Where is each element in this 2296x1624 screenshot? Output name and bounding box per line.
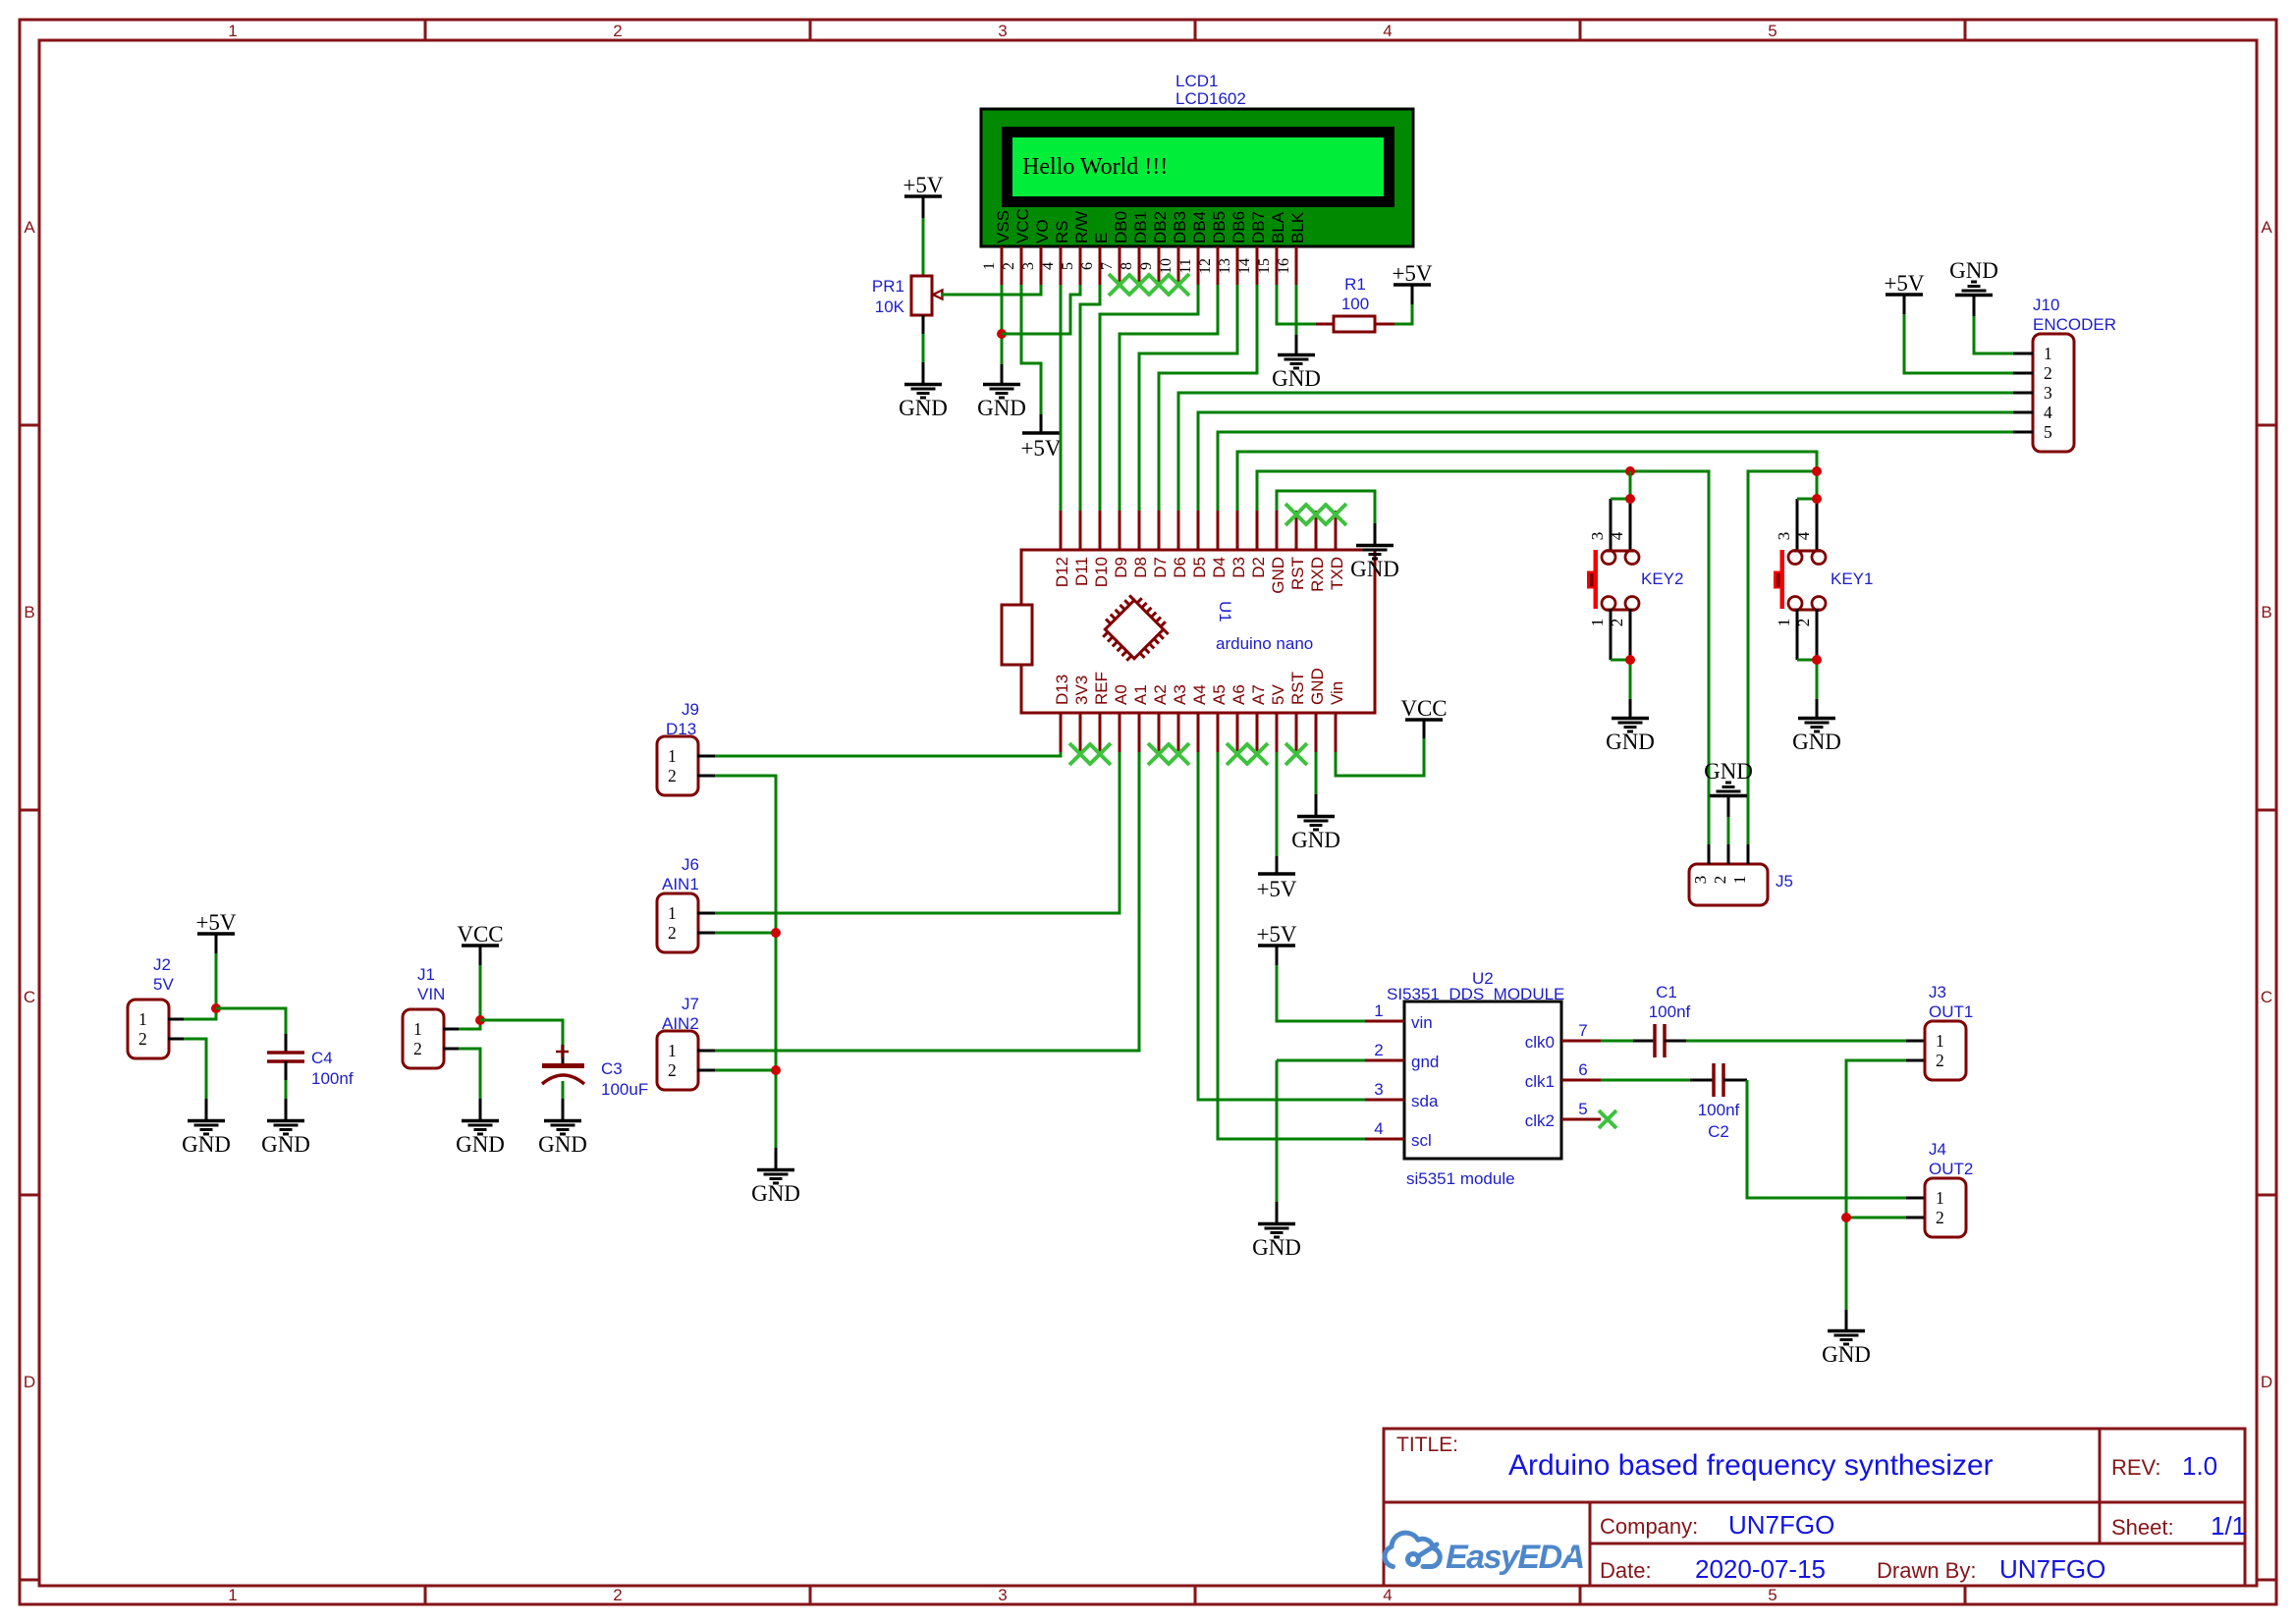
svg-text:clk2: clk2 xyxy=(1525,1111,1555,1130)
svg-text:KEY1: KEY1 xyxy=(1831,569,1873,588)
wire D6 to J10 pin3 xyxy=(1178,393,2013,511)
svg-text:arduino nano: arduino nano xyxy=(1216,634,1313,653)
svg-text:D10: D10 xyxy=(1092,557,1111,587)
svg-text:1: 1 xyxy=(228,1586,237,1604)
svg-text:3: 3 xyxy=(2044,383,2052,403)
J5 pin 2 stub xyxy=(1727,844,1730,864)
svg-text:+5V: +5V xyxy=(902,173,943,197)
svg-text:DB6: DB6 xyxy=(1230,211,1248,244)
svg-text:A: A xyxy=(24,218,35,237)
svg-text:sda: sda xyxy=(1411,1092,1439,1110)
svg-text:LCD1602: LCD1602 xyxy=(1175,89,1246,108)
power +5V (above PR1) xyxy=(904,194,942,198)
wire J7 pin2 to GND rail xyxy=(697,1069,715,1072)
wire 5V pin to +5V xyxy=(1276,752,1279,856)
svg-text:100nf: 100nf xyxy=(311,1069,354,1088)
wire VCC net to C3 xyxy=(480,1020,563,1045)
svg-text:VIN: VIN xyxy=(417,985,445,1003)
svg-text:REF: REF xyxy=(1092,672,1111,705)
wire A1 to J7 pin1 xyxy=(697,1050,715,1053)
svg-text:+5V: +5V xyxy=(195,910,236,935)
U1 top pin D6 stub xyxy=(1177,511,1180,550)
KEY2 top elbow xyxy=(1611,498,1630,501)
node KEY2 pins3-4 xyxy=(1625,494,1635,504)
node VSS-R/W junction xyxy=(997,329,1007,339)
svg-text:PR1: PR1 xyxy=(872,277,904,296)
wire U1 GND(top) to ground xyxy=(1277,491,1375,523)
J5 pin 3 stub xyxy=(1708,844,1711,864)
svg-text:Sheet:: Sheet: xyxy=(2111,1515,2174,1540)
wire A0 to J6 pin1 xyxy=(697,912,715,915)
svg-text:D4: D4 xyxy=(1210,557,1229,578)
svg-text:5: 5 xyxy=(1768,1586,1777,1604)
ground (J3/J4) xyxy=(1828,1329,1865,1333)
svg-text:1: 1 xyxy=(413,1019,422,1039)
svg-text:1: 1 xyxy=(668,746,677,766)
svg-text:U1: U1 xyxy=(1216,601,1234,623)
KEY1 bottom elbow to GND xyxy=(1797,660,1817,699)
node D3-J5 junction xyxy=(1812,466,1822,476)
ground (right of U1) xyxy=(1356,544,1394,548)
svg-text:D9: D9 xyxy=(1112,557,1130,578)
svg-text:A3: A3 xyxy=(1171,684,1189,705)
capacitor C2 xyxy=(1690,1079,1714,1082)
node KEY2 pins1-2 xyxy=(1625,655,1635,665)
svg-text:J7: J7 xyxy=(682,995,699,1013)
svg-text:DB2: DB2 xyxy=(1151,211,1170,244)
svg-text:GND: GND xyxy=(182,1132,231,1157)
svg-text:DB7: DB7 xyxy=(1249,211,1268,244)
svg-text:LCD1: LCD1 xyxy=(1175,72,1218,90)
wire D4 to J10 pin5 xyxy=(1218,432,2013,511)
power VCC (J1) xyxy=(462,944,499,947)
svg-text:si5351 module: si5351 module xyxy=(1406,1169,1515,1188)
svg-text:J3: J3 xyxy=(1929,983,1946,1001)
capacitor C3 polarity + xyxy=(556,1051,569,1054)
svg-text:+5V: +5V xyxy=(1256,877,1296,901)
svg-text:UN7FGO: UN7FGO xyxy=(1728,1510,1834,1540)
node D2-KEY2 junction xyxy=(1625,466,1635,476)
svg-text:DB4: DB4 xyxy=(1190,211,1209,244)
wire J2 pin1 to +5V net xyxy=(168,1018,184,1021)
wire +5V net to C4 xyxy=(216,1008,286,1034)
wire KEY2 pin4 up xyxy=(1629,471,1632,499)
U1 top pin GND stub xyxy=(1276,511,1279,550)
power +5V (right of R1) xyxy=(1394,283,1431,287)
svg-text:J4: J4 xyxy=(1929,1140,1946,1159)
node KEY1 pins1-2 xyxy=(1812,655,1822,665)
U1 top pin D9 stub xyxy=(1119,511,1121,550)
svg-text:6: 6 xyxy=(1079,262,1096,270)
svg-text:2: 2 xyxy=(668,766,677,785)
svg-text:D6: D6 xyxy=(1171,557,1189,578)
wire J6 pin2 to GND rail xyxy=(697,932,715,935)
svg-text:GND: GND xyxy=(1792,730,1841,754)
LCD pin 3 stub xyxy=(1040,246,1043,285)
svg-text:BLK: BLK xyxy=(1288,211,1307,244)
svg-text:4: 4 xyxy=(1374,1119,1383,1138)
ground (J10 pin1) xyxy=(1955,294,1993,298)
svg-text:5: 5 xyxy=(1060,262,1076,270)
svg-text:3: 3 xyxy=(1588,532,1607,541)
svg-text:2: 2 xyxy=(613,1586,622,1604)
svg-text:2: 2 xyxy=(1608,619,1626,627)
svg-text:1: 1 xyxy=(981,262,998,270)
svg-text:2: 2 xyxy=(613,22,622,40)
LCD pin 11 stub xyxy=(1197,246,1200,285)
svg-text:2: 2 xyxy=(413,1039,422,1058)
U1 bottom pin A4 stub xyxy=(1197,713,1200,752)
LCD pin 9 stub xyxy=(1158,246,1161,285)
svg-text:1: 1 xyxy=(1936,1188,1944,1208)
KEY1 top elbow xyxy=(1797,498,1817,501)
svg-text:VCC: VCC xyxy=(457,922,503,947)
svg-text:2: 2 xyxy=(1794,619,1813,627)
svg-text:scl: scl xyxy=(1411,1131,1432,1150)
wire C1 to J3 pin1 xyxy=(1686,1040,1906,1043)
svg-text:8: 8 xyxy=(1119,262,1135,270)
svg-text:vin: vin xyxy=(1411,1013,1433,1032)
svg-text:D: D xyxy=(24,1373,35,1391)
ground (J9/J6/J7) xyxy=(757,1168,794,1172)
U1 top pin TXD stub xyxy=(1335,511,1338,550)
svg-text:4: 4 xyxy=(1608,531,1626,540)
svg-text:GND: GND xyxy=(456,1132,505,1157)
node J4.2 junction xyxy=(1841,1213,1851,1222)
wire J9 pin2 to GND rail xyxy=(697,775,715,778)
svg-text:OUT2: OUT2 xyxy=(1929,1160,1973,1178)
svg-text:VSS: VSS xyxy=(994,210,1012,244)
svg-text:GND: GND xyxy=(1822,1342,1871,1367)
node J6.2 junction xyxy=(771,928,781,938)
LCD pin 10 stub xyxy=(1177,246,1180,285)
wire R1 to +5V xyxy=(1394,304,1412,324)
svg-text:3: 3 xyxy=(1020,262,1037,270)
svg-text:2: 2 xyxy=(1936,1051,1944,1070)
svg-text:7: 7 xyxy=(1578,1021,1587,1040)
power +5V (U2 vin) xyxy=(1258,944,1295,947)
no-connect DB2 xyxy=(1148,274,1170,296)
svg-text:Arduino based frequency synthe: Arduino based frequency synthesizer xyxy=(1508,1449,1994,1482)
svg-text:UN7FGO: UN7FGO xyxy=(1999,1554,2105,1584)
svg-text:D5: D5 xyxy=(1190,557,1209,578)
svg-text:D13: D13 xyxy=(1053,675,1071,705)
node J1 VCC junction xyxy=(475,1015,485,1025)
capacitor C1 xyxy=(1633,1040,1655,1043)
U1 usb connector xyxy=(1002,605,1032,665)
U1 top pin D8 stub xyxy=(1138,511,1141,550)
wire BLA to R1 xyxy=(1277,285,1316,324)
power +5V (J2) xyxy=(197,932,235,936)
no-connect U1 bottom pin xyxy=(1285,743,1307,765)
svg-text:2: 2 xyxy=(1374,1041,1383,1059)
svg-text:BLA: BLA xyxy=(1269,211,1287,244)
svg-text:J6: J6 xyxy=(682,855,699,874)
svg-text:2: 2 xyxy=(1001,262,1017,270)
svg-text:RXD: RXD xyxy=(1308,557,1327,592)
svg-text:7: 7 xyxy=(1099,262,1116,270)
U2 pin 5 clk2 xyxy=(1561,1118,1601,1121)
svg-text:C3: C3 xyxy=(601,1059,623,1078)
J10 pin stubs xyxy=(2013,352,2033,355)
LCD pin 8 stub xyxy=(1138,246,1141,285)
svg-text:RS: RS xyxy=(1053,220,1071,244)
capacitor C4 xyxy=(267,1051,304,1055)
ground (U2 gnd) xyxy=(1258,1222,1295,1226)
wire DB4 to D10 xyxy=(1100,285,1198,511)
svg-text:4: 4 xyxy=(2044,403,2052,422)
wire A4 to U2 sda xyxy=(1198,752,1365,1100)
svg-text:1: 1 xyxy=(1730,876,1749,885)
svg-text:GND: GND xyxy=(751,1181,800,1206)
wire clk1 to C2 xyxy=(1601,1079,1690,1082)
U1 bottom pin REF stub xyxy=(1099,713,1102,752)
wire DB6 to D8 xyxy=(1139,285,1237,511)
LCD pin 2 stub xyxy=(1020,246,1023,285)
wire +5V to PR1 xyxy=(922,196,925,218)
title block xyxy=(1384,1429,2245,1586)
svg-text:16: 16 xyxy=(1276,258,1292,274)
ground (U1 GND pin) xyxy=(1297,815,1335,819)
no-connect DB3 xyxy=(1168,274,1189,296)
svg-text:4: 4 xyxy=(1040,262,1057,270)
svg-text:D2: D2 xyxy=(1249,557,1268,578)
U1 bottom pin A3 stub xyxy=(1177,713,1180,752)
svg-text:10: 10 xyxy=(1158,258,1175,274)
node J7.2 junction xyxy=(771,1065,781,1075)
wire J4 pin2 to GND rail xyxy=(1906,1217,1924,1219)
wire D13 to J9 pin1 xyxy=(715,752,1061,756)
svg-text:A4: A4 xyxy=(1190,684,1209,705)
wire VSS to GND xyxy=(1001,285,1004,364)
LCD pin 1 stub xyxy=(1001,246,1004,285)
wire J1 pin2 to GND xyxy=(443,1048,459,1051)
svg-text:DB0: DB0 xyxy=(1112,211,1130,244)
ground (J2 pin2) xyxy=(188,1119,225,1123)
svg-text:Vin: Vin xyxy=(1328,681,1346,705)
U1 bottom pin D13 stub xyxy=(1060,713,1063,752)
power VCC (U1 Vin) xyxy=(1405,718,1443,722)
svg-text:E: E xyxy=(1092,233,1111,244)
svg-text:100nf: 100nf xyxy=(1649,1002,1691,1021)
svg-text:15: 15 xyxy=(1256,258,1273,274)
svg-text:100uF: 100uF xyxy=(601,1080,648,1099)
power +5V (U1 5V pin) xyxy=(1258,872,1295,876)
svg-text:5V: 5V xyxy=(1269,684,1287,705)
wire C2 to J4 pin1 xyxy=(1747,1080,1906,1198)
svg-text:D3: D3 xyxy=(1230,557,1248,578)
LCD pin 7 stub xyxy=(1119,246,1121,285)
svg-text:DB5: DB5 xyxy=(1210,211,1229,244)
no-connect U1 top pin xyxy=(1305,504,1327,525)
wire VCC to J1 pin1 xyxy=(479,946,482,965)
wire GND pin to ground xyxy=(1315,752,1318,794)
ground (KEY1) xyxy=(1798,717,1835,721)
svg-text:1: 1 xyxy=(138,1009,147,1029)
svg-text:Company:: Company: xyxy=(1600,1514,1698,1539)
LCD pin 15 stub xyxy=(1276,246,1279,285)
LCD pin 16 stub xyxy=(1295,246,1298,285)
KEY2 bottom elbow to GND xyxy=(1611,660,1630,699)
svg-text:C4: C4 xyxy=(311,1049,333,1067)
svg-text:+5V: +5V xyxy=(1884,271,1924,296)
svg-text:2: 2 xyxy=(668,1060,677,1080)
svg-text:GND: GND xyxy=(977,396,1026,420)
U1 body xyxy=(1021,550,1375,713)
svg-text:R1: R1 xyxy=(1344,275,1366,294)
svg-text:DB1: DB1 xyxy=(1131,211,1150,244)
svg-text:14: 14 xyxy=(1236,258,1253,274)
ground (J5 pin2) xyxy=(1710,794,1747,798)
potentiometer PR1 xyxy=(911,276,932,315)
U1 bottom pin 5V stub xyxy=(1276,713,1279,752)
node J2 +5V junction xyxy=(211,1003,221,1013)
wire R/W to GND net xyxy=(1002,285,1080,334)
U1 top pin D12 stub xyxy=(1060,511,1063,550)
ground (KEY2) xyxy=(1612,717,1649,721)
U1 top pin D3 stub xyxy=(1236,511,1239,550)
U1 bottom pin A7 stub xyxy=(1256,713,1259,752)
U2 pin 1 vin xyxy=(1365,1020,1404,1023)
U2 pin 7 clk0 xyxy=(1561,1040,1601,1043)
U1 bottom pin A5 stub xyxy=(1217,713,1220,752)
svg-text:C: C xyxy=(24,988,35,1006)
svg-text:gnd: gnd xyxy=(1411,1053,1439,1071)
no-connect U1 bottom pin xyxy=(1227,743,1248,765)
svg-text:A0: A0 xyxy=(1112,684,1130,705)
svg-text:VCC: VCC xyxy=(1400,696,1447,721)
svg-text:VO: VO xyxy=(1033,219,1052,244)
svg-text:J2: J2 xyxy=(153,955,171,974)
svg-text:100: 100 xyxy=(1341,295,1369,313)
U2 body xyxy=(1404,1001,1561,1159)
svg-text:2: 2 xyxy=(1711,876,1729,885)
U1 bottom pin A1 stub xyxy=(1138,713,1141,752)
wire RS to D12 xyxy=(1060,285,1063,511)
svg-text:A6: A6 xyxy=(1230,684,1248,705)
svg-text:EasyEDA: EasyEDA xyxy=(1446,1539,1584,1576)
svg-text:OUT1: OUT1 xyxy=(1929,1002,1973,1021)
wire +5V to J2 pin1 xyxy=(215,934,218,953)
U1 top pin D5 stub xyxy=(1197,511,1200,550)
LCD screen xyxy=(1012,137,1384,196)
LCD screen bezel xyxy=(1002,127,1394,207)
LCD pin 12 stub xyxy=(1217,246,1220,285)
wire U2 gnd to ground xyxy=(1277,1059,1365,1062)
svg-text:5: 5 xyxy=(2044,422,2052,442)
U1 bottom pin Vin stub xyxy=(1335,713,1338,752)
svg-text:3: 3 xyxy=(998,22,1007,40)
wire J1 pin1 to VCC net xyxy=(443,1028,459,1031)
wire VCC to +5V xyxy=(1021,285,1041,414)
svg-text:Date:: Date: xyxy=(1600,1558,1652,1583)
svg-text:5: 5 xyxy=(1578,1100,1587,1118)
svg-text:TITLE:: TITLE: xyxy=(1396,1434,1458,1456)
svg-text:C1: C1 xyxy=(1656,983,1677,1001)
wire E to D11 xyxy=(1080,285,1100,511)
svg-text:J9: J9 xyxy=(682,700,699,719)
svg-text:Hello World !!!: Hello World !!! xyxy=(1022,154,1168,180)
svg-text:3: 3 xyxy=(1691,876,1710,885)
wire GND to J5 pin2 xyxy=(1727,797,1730,817)
power +5V (LCD VCC) xyxy=(1022,431,1060,435)
wire VO to PR1 wiper xyxy=(941,285,1041,295)
wire DB7 to D7 xyxy=(1159,285,1257,511)
svg-text:11: 11 xyxy=(1177,258,1194,273)
svg-text:J1: J1 xyxy=(417,965,435,984)
wire BLK to GND xyxy=(1295,285,1298,335)
ground (C4) xyxy=(267,1119,304,1123)
svg-text:GND: GND xyxy=(1606,730,1655,754)
svg-text:3: 3 xyxy=(998,1586,1007,1604)
svg-text:D12: D12 xyxy=(1053,557,1071,587)
U2 pin 3 sda xyxy=(1365,1099,1404,1102)
switch KEY1 xyxy=(1796,499,1799,552)
svg-text:5: 5 xyxy=(1768,22,1777,40)
U1 top pin D4 stub xyxy=(1217,511,1220,550)
svg-text:4: 4 xyxy=(1383,1586,1392,1604)
U2 pin 6 clk1 xyxy=(1561,1079,1601,1082)
svg-text:ENCODER: ENCODER xyxy=(2033,315,2116,334)
svg-text:clk1: clk1 xyxy=(1525,1072,1555,1091)
ground (C3) xyxy=(544,1119,581,1123)
svg-text:TXD: TXD xyxy=(1328,557,1346,590)
svg-text:9: 9 xyxy=(1138,262,1155,270)
svg-text:1: 1 xyxy=(1936,1031,1944,1051)
U2 pin 2 gnd xyxy=(1365,1059,1404,1062)
svg-text:1: 1 xyxy=(2044,344,2052,363)
svg-text:REV:: REV: xyxy=(2111,1455,2161,1480)
svg-text:10K: 10K xyxy=(875,298,905,316)
svg-text:KEY2: KEY2 xyxy=(1641,569,1683,588)
LCD body xyxy=(981,109,1413,246)
wire J2 pin2 to GND xyxy=(168,1038,184,1041)
svg-text:GND: GND xyxy=(1272,366,1321,391)
svg-text:1: 1 xyxy=(668,903,677,923)
svg-text:clk0: clk0 xyxy=(1525,1033,1555,1052)
LCD pin 13 stub xyxy=(1236,246,1239,285)
U1 top pin RXD stub xyxy=(1315,511,1318,550)
ground (LCD VSS) xyxy=(983,383,1020,387)
svg-text:2: 2 xyxy=(668,923,677,943)
U1 bottom pin GND stub xyxy=(1315,713,1318,752)
svg-text:VCC: VCC xyxy=(1013,208,1032,244)
svg-text:D: D xyxy=(2261,1373,2272,1391)
LCD pin 5 stub xyxy=(1079,246,1082,285)
no-connect DB1 xyxy=(1128,274,1150,296)
svg-text:1: 1 xyxy=(1374,1001,1383,1020)
svg-text:J5: J5 xyxy=(1776,872,1793,891)
wire clk0 to C1 xyxy=(1601,1040,1633,1043)
ground (LCD BLK) xyxy=(1278,353,1315,357)
capacitor C3 xyxy=(542,1063,584,1068)
svg-text:1: 1 xyxy=(1588,619,1607,627)
svg-text:1.0: 1.0 xyxy=(2182,1451,2217,1481)
svg-text:GND: GND xyxy=(1350,557,1399,581)
svg-text:AIN1: AIN1 xyxy=(662,875,699,893)
svg-text:C: C xyxy=(2261,988,2272,1006)
svg-text:+5V: +5V xyxy=(1256,922,1296,947)
wire Vin to VCC xyxy=(1336,738,1424,776)
switch KEY2 xyxy=(1610,499,1613,552)
svg-text:RST: RST xyxy=(1288,557,1307,590)
svg-text:2020-07-15: 2020-07-15 xyxy=(1695,1554,1826,1584)
EasyEDA logo xyxy=(1385,1533,1440,1566)
power +5V (J10 pin2) xyxy=(1886,293,1923,297)
svg-text:A5: A5 xyxy=(1210,684,1229,705)
no-connect U1 top pin xyxy=(1325,504,1346,525)
LCD pin 6 stub xyxy=(1099,246,1102,285)
